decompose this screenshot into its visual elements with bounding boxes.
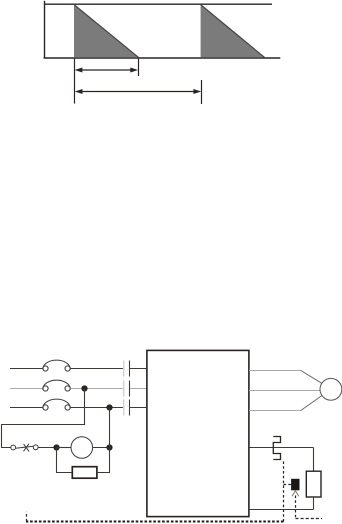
wire R contactor to terminal bbox=[70, 368, 123, 370]
sensor dashed lead down bbox=[295, 496, 297, 519]
output wire W diagonal bbox=[301, 396, 322, 411]
braking wire P bbox=[249, 447, 314, 449]
inverter box bbox=[147, 350, 249, 516]
wire node B up to phase T bbox=[109, 408, 111, 448]
resistor box bbox=[72, 467, 97, 479]
dimension tick left bbox=[74, 59, 76, 104]
sensor arrow bbox=[292, 491, 299, 497]
junction node phase S bbox=[81, 385, 87, 391]
output wire W bbox=[249, 410, 301, 412]
fuse switch circle 1 bbox=[11, 445, 16, 450]
PWM carrier triangle 2 bbox=[201, 5, 265, 58]
return wire to inverter bbox=[249, 509, 314, 511]
thermal overload relay bbox=[273, 437, 280, 460]
dimension tick right bbox=[201, 80, 203, 104]
motor M bbox=[320, 378, 342, 400]
fuse switch cross bbox=[24, 444, 30, 452]
contactor pole 2 bbox=[43, 380, 71, 391]
thermal sensor block bbox=[291, 479, 299, 491]
waveform top line bbox=[44, 3, 272, 5]
junction node phase T bbox=[106, 404, 112, 410]
PWM carrier triangle 1 bbox=[74, 5, 139, 58]
input terminal S bbox=[124, 381, 130, 397]
input terminal R bbox=[124, 361, 130, 377]
input terminal T bbox=[124, 400, 130, 416]
sensor dashed link bbox=[284, 484, 292, 486]
phase T input wire bbox=[10, 407, 43, 409]
trip linkage dashed stub bbox=[26, 512, 28, 522]
braking resistor bbox=[306, 471, 321, 497]
dimension arrow t (pulse width) bbox=[75, 68, 139, 73]
control tap wire from phase S bbox=[2, 389, 85, 448]
wire to braking resistor top bbox=[313, 448, 315, 472]
wire node A to coil bbox=[57, 447, 72, 449]
wire coil to node B bbox=[93, 447, 110, 449]
node B bbox=[106, 444, 112, 450]
output wire V bbox=[249, 390, 320, 392]
contactor pole 1 bbox=[43, 360, 71, 371]
wire switch to node A bbox=[38, 447, 56, 449]
node A bbox=[53, 444, 59, 450]
output wire U bbox=[249, 370, 301, 372]
wire node A down to resistor bbox=[57, 448, 73, 473]
wire terminal S to inverter bbox=[130, 388, 147, 390]
sensor dashed lead right bbox=[296, 518, 323, 520]
trip linkage dashed bottom run bbox=[26, 521, 284, 523]
trip linkage dashed vertical bbox=[283, 461, 285, 521]
wire T contactor to terminal bbox=[70, 407, 123, 409]
wire S contactor to terminal bbox=[70, 388, 123, 390]
fuse switch circle 2 bbox=[33, 445, 38, 450]
wire terminal T to inverter bbox=[130, 407, 147, 409]
contactor pole 3 bbox=[43, 399, 71, 410]
dimension tick middle bbox=[138, 59, 140, 76]
braking resistor bottom lead bbox=[313, 497, 315, 510]
phase S input wire bbox=[10, 388, 43, 390]
wire terminal R to inverter bbox=[130, 368, 147, 370]
phase R input wire bbox=[10, 368, 43, 370]
dimension arrow T (period) bbox=[75, 89, 202, 94]
coil circle bbox=[71, 437, 93, 459]
waveform bottom line bbox=[44, 57, 281, 59]
waveform left axis bbox=[44, 1, 46, 58]
output wire U diagonal bbox=[301, 371, 322, 384]
wire resistor to node B bbox=[97, 448, 110, 473]
fuse switch blade bbox=[16, 446, 34, 448]
